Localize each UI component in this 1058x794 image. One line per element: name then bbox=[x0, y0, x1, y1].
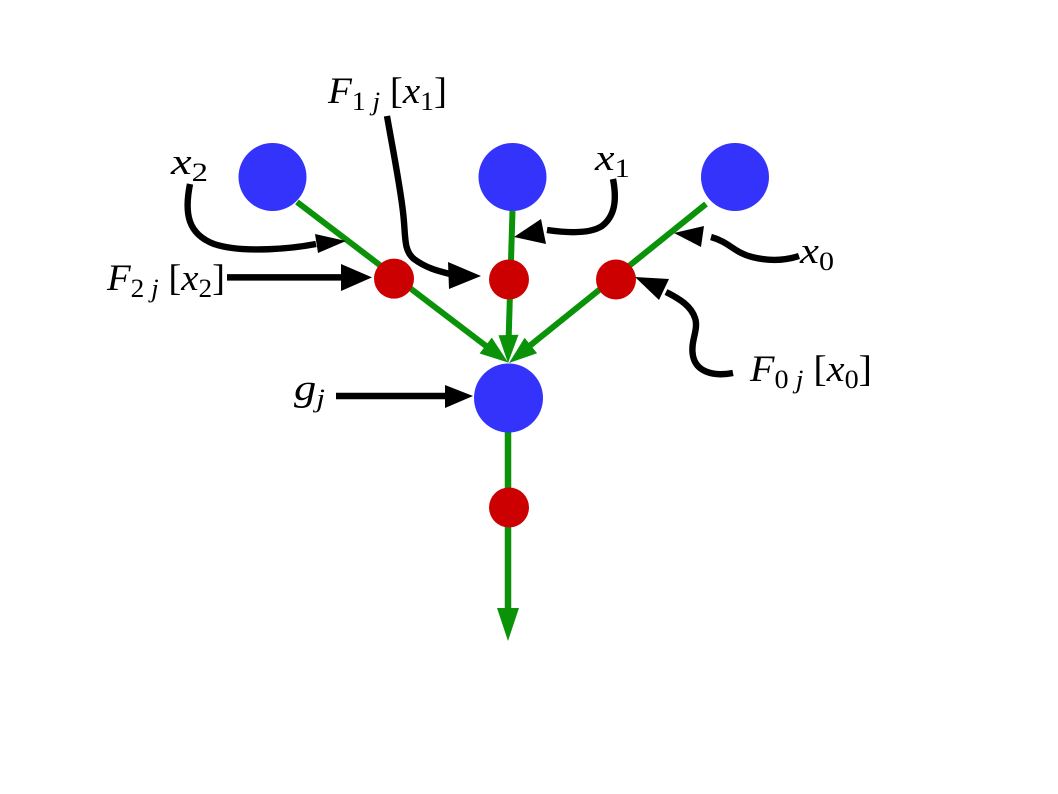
synapse F2j (red dot) bbox=[374, 259, 414, 299]
leader arrow from g_j label to sum node bbox=[336, 385, 473, 408]
svg-text:x2: x2 bbox=[170, 142, 208, 187]
sum node g_j (blue circle) bbox=[474, 364, 543, 433]
leader arrow from x0 label to edge bbox=[674, 226, 799, 260]
svg-text:F0 j [x0]: F0 j [x0] bbox=[749, 349, 872, 394]
svg-text:F2 j [x2]: F2 j [x2] bbox=[106, 258, 225, 303]
leader arrow from F0j label to red dot bbox=[635, 277, 733, 374]
svg-text:F1 j [x1]: F1 j [x1] bbox=[327, 71, 447, 116]
leader arrow from x2 label to edge bbox=[188, 184, 346, 253]
edge from input x2 node to sum node (green) bbox=[297, 202, 508, 363]
output edge with arrow (green) bbox=[497, 420, 519, 641]
svg-text:gj: gj bbox=[294, 368, 325, 413]
synapse F0j (red dot) bbox=[596, 260, 636, 300]
input node x0 (blue circle) bbox=[701, 143, 769, 211]
input node x2 (blue circle) bbox=[239, 143, 307, 211]
svg-text:x1: x1 bbox=[594, 138, 630, 183]
svg-text:x0: x0 bbox=[799, 231, 834, 276]
synapse F1j (red dot) bbox=[489, 260, 529, 300]
leader arrow from F2j label to red dot bbox=[227, 264, 372, 291]
edge from input x1 node to sum node (green) bbox=[499, 211, 519, 363]
edge from input x0 node to sum node (green) bbox=[509, 204, 706, 363]
leader arrow from x1 label to edge bbox=[514, 179, 615, 244]
input node x1 (blue circle) bbox=[479, 143, 547, 211]
output synapse (red dot) bbox=[489, 488, 529, 528]
leader arrow from F1j label to red dot bbox=[387, 116, 481, 289]
